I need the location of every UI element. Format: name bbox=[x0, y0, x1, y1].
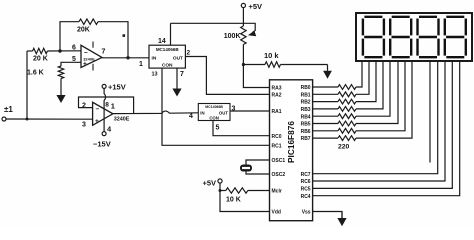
svg-text:RB6: RB6 bbox=[301, 129, 311, 135]
wire RC6 to display digit bbox=[313, 61, 445, 181]
wire RB6 to display segment bbox=[356, 61, 405, 131]
svg-text:14: 14 bbox=[158, 38, 166, 45]
wire RB2 to display segment bbox=[356, 61, 376, 102]
resistor 20K feedback of U1 bbox=[60, 22, 79, 51]
svg-text:2: 2 bbox=[187, 50, 191, 57]
svg-text:10 K: 10 K bbox=[226, 197, 241, 204]
svg-text:Mclr: Mclr bbox=[272, 189, 282, 195]
wire U2 feedback pin 2 loop bbox=[79, 97, 134, 113]
svg-text:20K: 20K bbox=[77, 27, 90, 34]
resistor 220 RB4 bbox=[313, 115, 338, 117]
resistor 220 RB5 bbox=[313, 123, 338, 125]
svg-text:7: 7 bbox=[180, 71, 184, 78]
+15V supply bbox=[102, 84, 106, 88]
svg-text:1.6 K: 1.6 K bbox=[27, 70, 44, 77]
wire U3b pin 5 CON to RC0 bbox=[213, 121, 270, 136]
svg-text:RC4: RC4 bbox=[301, 194, 311, 200]
resistor 20 K input bbox=[27, 50, 33, 52]
wire RC7 to display digit bbox=[313, 61, 438, 174]
op-amp U1 3240E bbox=[81, 45, 102, 67]
wire RB7 to display segment bbox=[356, 61, 412, 138]
svg-text:+15V: +15V bbox=[108, 83, 126, 92]
svg-text:220: 220 bbox=[338, 144, 350, 151]
svg-text:OSC2: OSC2 bbox=[272, 172, 286, 178]
resistor 220 RB7 bbox=[313, 137, 338, 139]
+5V supply bottom bbox=[218, 179, 222, 183]
svg-text:PIC16F876: PIC16F876 bbox=[286, 121, 296, 163]
svg-text:10 k: 10 k bbox=[264, 51, 279, 60]
resistor 1.6 K bbox=[58, 66, 63, 79]
svg-text:IN: IN bbox=[152, 56, 157, 62]
svg-text:7: 7 bbox=[102, 49, 106, 56]
op-amp U2 3240E bbox=[93, 102, 113, 125]
svg-text:2: 2 bbox=[82, 103, 86, 110]
ground U3a pin 7 bbox=[176, 68, 178, 88]
wire crystal to OSC2 bbox=[246, 172, 270, 175]
wire +5V down bbox=[242, 8, 244, 26]
svg-text:3: 3 bbox=[82, 122, 86, 129]
svg-text:1: 1 bbox=[139, 61, 143, 68]
svg-text:+5V: +5V bbox=[249, 2, 263, 11]
svg-text:RB3: RB3 bbox=[301, 107, 311, 113]
svg-text:RB2: RB2 bbox=[301, 100, 311, 106]
svg-text:RB7: RB7 bbox=[301, 136, 311, 142]
svg-text:CON: CON bbox=[209, 116, 219, 121]
arrow to display common bbox=[327, 65, 329, 71]
resistor 10 k bbox=[243, 64, 265, 66]
wire U1 output to U3a pin 1 bbox=[102, 57, 149, 59]
input terminal ±1 bbox=[2, 117, 6, 121]
svg-text:3240E: 3240E bbox=[114, 116, 130, 122]
stray dot mark bbox=[123, 34, 126, 37]
node U1 output junction bbox=[126, 56, 129, 59]
svg-text:20 K: 20 K bbox=[33, 56, 48, 63]
wire U3b pin 3 OUT to RA1 bbox=[230, 110, 270, 112]
svg-text:CON: CON bbox=[162, 63, 173, 69]
wire junction up to 20 K bbox=[26, 51, 28, 119]
svg-text:+: + bbox=[83, 61, 87, 68]
svg-text:RC1: RC1 bbox=[272, 143, 282, 149]
display digit 2 segments bbox=[390, 17, 411, 57]
node input junction bbox=[26, 118, 29, 121]
wire RB4 to display segment bbox=[356, 61, 390, 116]
svg-text:RC6: RC6 bbox=[301, 179, 311, 185]
potentiometer 100K bbox=[241, 26, 246, 45]
resistor 220 RB0 bbox=[313, 86, 338, 88]
wire input to op-amp U2 pin 3 bbox=[6, 118, 93, 120]
wire display stub unconnected bbox=[429, 61, 431, 163]
wire U2 output to U3b pin 4 with hop bbox=[113, 111, 198, 114]
svg-text:8: 8 bbox=[105, 102, 109, 109]
display digit 3 segments bbox=[418, 17, 439, 57]
svg-text:13: 13 bbox=[152, 72, 158, 78]
svg-text:3240E: 3240E bbox=[83, 57, 95, 62]
wire U1 pin 5 bbox=[61, 62, 81, 66]
display digit 1 segments bbox=[363, 17, 384, 57]
wire OSC1 to crystal bbox=[246, 160, 270, 165]
wire pot bottom bbox=[242, 45, 244, 65]
analog switch U3a MC14066B bbox=[149, 45, 185, 68]
svg-text:MC14066B: MC14066B bbox=[156, 47, 180, 52]
node feedback junction bbox=[58, 49, 61, 52]
svg-text:RB0: RB0 bbox=[301, 85, 311, 91]
svg-text:RB1: RB1 bbox=[301, 92, 311, 98]
wire RB3 to display segment bbox=[356, 61, 383, 109]
node pot junction bbox=[242, 63, 245, 66]
wire U3a pin 13 CON to RC1 bbox=[162, 68, 270, 145]
svg-text:RC0: RC0 bbox=[272, 134, 282, 140]
svg-text:100K: 100K bbox=[224, 33, 241, 40]
resistor 220 RB3 bbox=[313, 108, 338, 110]
+5V supply top bbox=[241, 3, 245, 7]
svg-text:4: 4 bbox=[189, 113, 193, 120]
svg-text:OUT: OUT bbox=[173, 56, 183, 62]
svg-text:RB4: RB4 bbox=[301, 114, 311, 120]
svg-text:6: 6 bbox=[72, 45, 76, 52]
wire U3a pin 14 up bbox=[170, 23, 172, 45]
svg-text:−15V: −15V bbox=[93, 140, 111, 149]
resistor 220 RB6 bbox=[313, 130, 338, 132]
wire pot node to RA3 bbox=[243, 65, 269, 88]
wire pot wiper to pin 14 bbox=[171, 23, 256, 32]
resistor 220 RB2 bbox=[313, 101, 338, 103]
display digit 4 segments bbox=[445, 17, 466, 57]
svg-text:MC14066B: MC14066B bbox=[205, 105, 223, 109]
svg-text:−: − bbox=[96, 106, 100, 113]
svg-text:RB5: RB5 bbox=[301, 122, 311, 128]
svg-text:±1: ±1 bbox=[4, 105, 13, 114]
wire RC4 to display digit bbox=[313, 61, 460, 196]
svg-text:+: + bbox=[95, 118, 99, 125]
svg-text:RC7: RC7 bbox=[301, 172, 311, 178]
svg-text:RA3: RA3 bbox=[272, 86, 282, 92]
svg-text:−: − bbox=[84, 50, 88, 57]
wire +15V through U2 to -15V with hop bbox=[104, 88, 106, 131]
svg-text:OUT: OUT bbox=[219, 111, 228, 116]
node Mclr junction bbox=[219, 189, 222, 192]
svg-text:5: 5 bbox=[216, 125, 220, 132]
crystal X1 bbox=[240, 165, 252, 172]
svg-text:RA1: RA1 bbox=[272, 109, 282, 115]
wire Vss bbox=[313, 212, 342, 219]
svg-text:1: 1 bbox=[111, 102, 115, 111]
wire RB0 to display segment bbox=[356, 61, 362, 87]
svg-text:IN: IN bbox=[200, 111, 204, 116]
svg-text:+5V: +5V bbox=[202, 179, 216, 188]
wire +5V to Vdd bbox=[220, 183, 270, 211]
wire RB5 to display segment bbox=[356, 61, 398, 124]
svg-text:Vdd: Vdd bbox=[272, 210, 281, 216]
microcontroller U4 PIC16F876 bbox=[270, 80, 313, 221]
resistor 10 K bbox=[220, 190, 226, 192]
wire RC5 to display digit bbox=[313, 61, 453, 188]
display DS1 4-digit 7-segment bbox=[356, 13, 472, 61]
svg-text:RC5: RC5 bbox=[301, 187, 311, 193]
svg-text:OSC1: OSC1 bbox=[272, 158, 286, 164]
analog switch U3b MC14066B bbox=[198, 104, 230, 121]
svg-text:RA2: RA2 bbox=[272, 93, 282, 99]
resistor 220 RB1 bbox=[313, 93, 338, 95]
svg-text:Vss: Vss bbox=[302, 210, 311, 216]
ground below 1.6 K bbox=[60, 79, 62, 96]
wire RB1 to display segment bbox=[356, 61, 369, 94]
ground Vss bbox=[341, 212, 343, 219]
-15V supply bbox=[102, 132, 106, 136]
wire U3a pin 2 OUT to RA2 bbox=[185, 57, 269, 95]
